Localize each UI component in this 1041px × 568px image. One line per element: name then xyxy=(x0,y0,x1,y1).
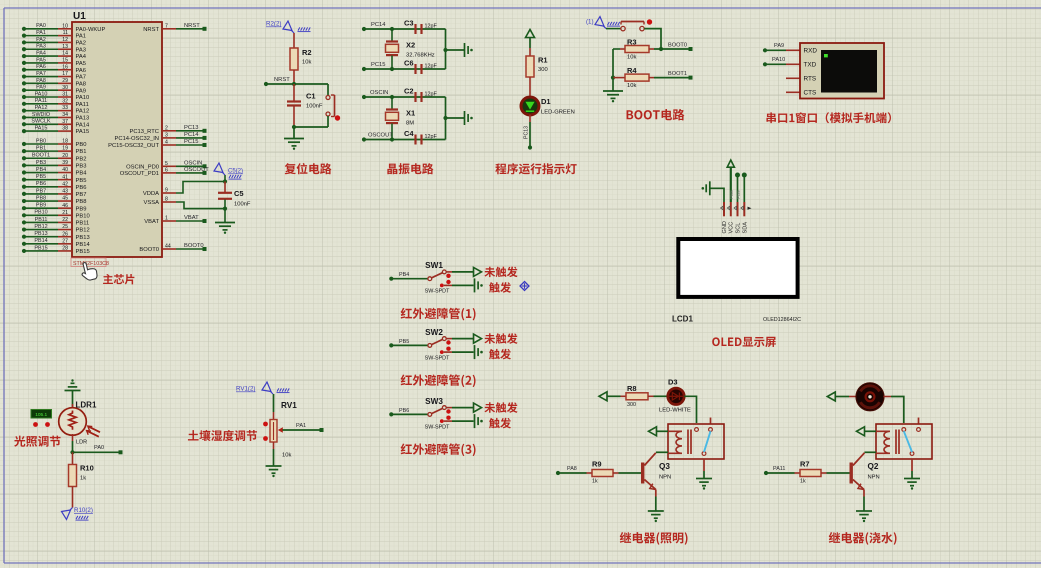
ground SW3 NC xyxy=(474,414,476,428)
svg-text:PA4: PA4 xyxy=(36,50,46,56)
svg-text:10k: 10k xyxy=(282,453,291,459)
svg-text:PA0: PA0 xyxy=(94,445,104,451)
switch SW1 SW-SPDT wire PB4 xyxy=(389,261,473,295)
svg-text:VSSA: VSSA xyxy=(144,200,160,206)
svg-text:39: 39 xyxy=(62,160,68,166)
svg-text:PB4: PB4 xyxy=(399,272,409,278)
svg-text:10: 10 xyxy=(62,23,68,29)
relay RL2 throw stub xyxy=(918,418,920,424)
svg-text:PA12: PA12 xyxy=(35,105,48,111)
svg-text:OSCOUT: OSCOUT xyxy=(184,167,209,173)
svg-text:RXD: RXD xyxy=(804,48,818,55)
svg-text:15: 15 xyxy=(62,58,68,64)
svg-text:7: 7 xyxy=(165,23,168,29)
svg-text:PB9: PB9 xyxy=(736,190,741,199)
svg-text:LCD1: LCD1 xyxy=(672,315,693,324)
svg-text:PA1: PA1 xyxy=(296,423,306,429)
svg-text:SCL: SCL xyxy=(736,223,742,234)
svg-text:18: 18 xyxy=(62,139,68,145)
svg-text:PB15: PB15 xyxy=(76,249,90,255)
svg-text:PB3: PB3 xyxy=(36,160,46,166)
svg-text:1k: 1k xyxy=(80,476,86,482)
pin PC14-OSC32_IN (3) net PC14 xyxy=(115,132,207,142)
svg-text:41: 41 xyxy=(62,174,68,180)
svg-text:SW1: SW1 xyxy=(425,261,443,270)
svg-text:25: 25 xyxy=(62,224,68,230)
svg-text:PA10: PA10 xyxy=(772,57,785,63)
svg-text:PA10: PA10 xyxy=(76,95,90,101)
svg-text:45: 45 xyxy=(62,196,68,202)
svg-text:PB0: PB0 xyxy=(36,138,46,144)
label 串口1窗口（模拟手机端） xyxy=(766,112,891,123)
svg-text:44: 44 xyxy=(165,244,171,250)
svg-text:PA7: PA7 xyxy=(36,71,46,77)
wire BOOT0 net xyxy=(654,43,693,52)
svg-text:PB4: PB4 xyxy=(36,167,46,173)
ground reset xyxy=(284,127,304,150)
svg-text:105.1: 105.1 xyxy=(35,412,47,418)
ldr LDR1 xyxy=(59,401,100,446)
svg-text:C2: C2 xyxy=(404,87,414,96)
svg-text:30: 30 xyxy=(62,85,68,91)
svg-text:PA6: PA6 xyxy=(36,64,46,70)
svg-text:D3: D3 xyxy=(668,378,678,387)
power arrow SW1 NO xyxy=(474,267,482,276)
oled pin marks xyxy=(721,206,752,210)
virtual terminal screen xyxy=(821,50,877,93)
ground SW2 NC xyxy=(474,345,476,359)
svg-text:8: 8 xyxy=(165,197,168,203)
ground Q2 emitter xyxy=(856,510,872,512)
ground RL1 xyxy=(696,478,712,480)
svg-text:PA3: PA3 xyxy=(76,47,87,53)
switch SW3 SW-SPDT wire PB6 xyxy=(389,397,473,431)
svg-text:BOOT1: BOOT1 xyxy=(32,153,50,159)
svg-text:LDR: LDR xyxy=(76,440,87,446)
transistor Q2 NPN xyxy=(850,453,880,511)
svg-text:NPN: NPN xyxy=(659,475,671,481)
pin PA0-WKUP (10) wire PA0 xyxy=(22,23,106,33)
pin PA1 (11) wire PA1 xyxy=(22,30,86,40)
svg-text:PA3: PA3 xyxy=(36,44,46,50)
resistor R10 1k xyxy=(69,452,94,507)
svg-text:PB6: PB6 xyxy=(76,185,87,191)
svg-text:6: 6 xyxy=(165,168,168,174)
pin PA6 (16) wire PA6 xyxy=(22,64,86,74)
power arrow motor xyxy=(827,392,856,401)
pin PA12 (33) wire PA12 xyxy=(22,105,89,115)
svg-text:PA8: PA8 xyxy=(36,78,46,84)
svg-text:R2: R2 xyxy=(302,48,312,57)
svg-text:27: 27 xyxy=(62,238,68,244)
switch SW2 SW-SPDT wire PB5 xyxy=(389,328,473,362)
pin PB11 (22) wire PB11 xyxy=(22,217,89,227)
svg-text:PC14: PC14 xyxy=(184,132,199,138)
wire coil to Q3 collector xyxy=(656,451,668,453)
node VSSA/C5 junction xyxy=(223,207,227,211)
pin PB7 (43) wire PB7 xyxy=(22,188,87,198)
label 未触发 1 xyxy=(484,267,517,278)
pin PB6 (42) wire PB6 xyxy=(22,181,87,191)
terminal pin labels xyxy=(804,48,818,97)
label 土壤湿度调节 xyxy=(188,430,257,441)
pin PB2 (20) wire BOOT1 xyxy=(22,153,87,163)
ground LDR top xyxy=(65,390,81,392)
label 未触发 3 xyxy=(484,402,517,413)
svg-text:PB4: PB4 xyxy=(76,171,88,177)
mcu part number STM32F103C8 xyxy=(71,258,109,267)
svg-text:PA0-WKUP: PA0-WKUP xyxy=(76,27,106,33)
power terminal D1 xyxy=(526,30,535,49)
motor xyxy=(856,383,884,411)
svg-text:1k: 1k xyxy=(592,479,598,485)
svg-text:R8: R8 xyxy=(627,384,637,393)
svg-text:PA4: PA4 xyxy=(76,54,87,60)
origin marker xyxy=(520,282,529,291)
svg-text:PB13: PB13 xyxy=(34,231,47,237)
wire PC14 xyxy=(362,22,446,31)
svg-text:NRST: NRST xyxy=(143,27,159,33)
svg-text:33: 33 xyxy=(62,105,68,111)
label 红外避障管(1) xyxy=(401,308,476,321)
ground SW1 NC xyxy=(474,278,476,292)
pin OSCIN_PD0 (5) net OSCIN xyxy=(126,161,206,171)
pin PB5 (41) wire PB5 xyxy=(22,174,87,184)
svg-text:PB1: PB1 xyxy=(36,146,46,152)
svg-text:PB7: PB7 xyxy=(76,192,87,198)
pot RV1 10k xyxy=(263,394,297,466)
svg-text:PA11: PA11 xyxy=(35,98,47,104)
svg-text:PB6: PB6 xyxy=(399,408,409,414)
svg-text:OSCOUT_PD1: OSCOUT_PD1 xyxy=(120,171,159,177)
svg-text:VBAT: VBAT xyxy=(184,215,199,221)
svg-text:TXD: TXD xyxy=(804,62,817,69)
svg-text:PA14: PA14 xyxy=(76,122,91,128)
label BOOT电路 xyxy=(627,109,685,120)
svg-text:11: 11 xyxy=(63,30,68,36)
svg-text:RV1: RV1 xyxy=(281,401,297,410)
virtual terminal body xyxy=(800,43,884,99)
terminal R2(2) xyxy=(266,21,311,34)
svg-text:NRST: NRST xyxy=(184,23,200,29)
svg-text:32: 32 xyxy=(62,98,68,104)
svg-text:PB10: PB10 xyxy=(34,210,47,216)
svg-text:PB8: PB8 xyxy=(36,195,46,201)
svg-text:PC14-OSC32_IN: PC14-OSC32_IN xyxy=(115,136,159,142)
resistor R7 1k xyxy=(795,460,850,485)
svg-text:PB14: PB14 xyxy=(34,238,47,244)
svg-text:43: 43 xyxy=(62,189,68,195)
pin PA4 (14) wire PA4 xyxy=(22,50,87,60)
svg-text:PA2: PA2 xyxy=(76,41,87,47)
pin PB4 (40) wire PB4 xyxy=(22,167,87,177)
svg-text:PA10: PA10 xyxy=(35,91,48,97)
svg-text:4: 4 xyxy=(165,140,168,146)
svg-text:PB5: PB5 xyxy=(36,174,46,180)
pin PA3 (13) wire PA3 xyxy=(22,44,86,54)
resistor R2 10k xyxy=(290,33,312,84)
label 程序运行指示灯 xyxy=(495,163,576,174)
pin PA9 (30) wire PA9 xyxy=(22,85,86,95)
svg-text:5: 5 xyxy=(165,161,168,167)
relay RL1 coil+switch xyxy=(668,424,724,459)
svg-text:NPN: NPN xyxy=(868,475,880,481)
svg-text:PB13: PB13 xyxy=(76,235,90,241)
pin PB3 (39) wire PB3 xyxy=(22,160,87,170)
push button BOOT xyxy=(606,19,652,31)
svg-text:10k: 10k xyxy=(302,60,311,66)
svg-text:STM32F103C8: STM32F103C8 xyxy=(73,261,109,267)
svg-text:GND: GND xyxy=(722,221,728,233)
capacitor C1 100nF xyxy=(287,84,323,127)
wire NRST rail xyxy=(264,77,328,86)
svg-text:10k: 10k xyxy=(627,55,636,61)
led D3 LED-WHITE xyxy=(654,378,692,414)
svg-text:R10: R10 xyxy=(80,464,94,473)
svg-text:34: 34 xyxy=(62,112,68,118)
ground BOOT xyxy=(603,78,623,103)
wire OSCOUT xyxy=(362,133,446,142)
svg-text:PB7: PB7 xyxy=(36,188,46,194)
wire BOOT1 net xyxy=(654,71,693,80)
svg-text:X2: X2 xyxy=(406,40,415,49)
wire PA11 xyxy=(764,466,795,475)
svg-text:26: 26 xyxy=(62,231,68,237)
svg-text:PA9: PA9 xyxy=(76,88,87,94)
svg-text:PA15: PA15 xyxy=(76,129,90,135)
svg-text:300: 300 xyxy=(538,67,548,73)
wire PA9 xyxy=(763,43,800,52)
relay RL2 coil+switch xyxy=(876,424,932,459)
resistor R9 1k xyxy=(587,460,642,485)
wire PA1 xyxy=(283,423,324,432)
transistor Q3 NPN xyxy=(641,453,671,511)
ground OLED xyxy=(709,181,711,195)
svg-text:22: 22 xyxy=(62,217,68,223)
svg-text:9: 9 xyxy=(165,188,168,194)
oled rotated net labels xyxy=(729,190,741,199)
ground RV1 xyxy=(266,465,282,467)
svg-text:1k: 1k xyxy=(800,479,806,485)
svg-text:R4: R4 xyxy=(627,66,637,75)
svg-text:PA9: PA9 xyxy=(36,85,46,91)
ground RL2 xyxy=(904,478,920,480)
svg-text:PA6: PA6 xyxy=(76,68,87,74)
terminal cursor xyxy=(824,54,828,57)
svg-text:SW3: SW3 xyxy=(425,397,443,406)
svg-text:CTS: CTS xyxy=(804,90,817,97)
pin PA11 (32) wire PA11 xyxy=(22,98,89,108)
svg-text:PC13: PC13 xyxy=(524,126,530,139)
wire OSCIN xyxy=(362,90,446,99)
svg-text:12pF: 12pF xyxy=(425,134,438,140)
pin PB15 (28) wire PB15 xyxy=(22,245,90,255)
pin CTS stub xyxy=(786,91,800,93)
svg-text:R7: R7 xyxy=(800,460,810,469)
svg-text:LED-GREEN: LED-GREEN xyxy=(541,110,575,116)
svg-text:PA11: PA11 xyxy=(773,466,785,472)
svg-text:40: 40 xyxy=(62,167,68,173)
svg-text:14: 14 xyxy=(62,51,68,57)
pin PC13_RTC (2) net PC13 xyxy=(129,125,206,135)
svg-text:LED-WHITE: LED-WHITE xyxy=(659,408,691,414)
wire PA0 xyxy=(73,445,123,454)
svg-text:R10(2): R10(2) xyxy=(74,507,93,514)
svg-text:PC15: PC15 xyxy=(371,62,386,68)
node VDDA/C5 junction xyxy=(223,179,227,183)
svg-text:PA2: PA2 xyxy=(36,37,46,43)
crystal X1 8M xyxy=(386,97,416,140)
svg-text:37: 37 xyxy=(62,119,68,125)
pin PA5 (15) wire PA5 xyxy=(22,57,86,67)
svg-text:PB9: PB9 xyxy=(76,206,87,212)
ldr value display xyxy=(31,410,52,419)
wire R3-R4 left rail xyxy=(611,49,615,80)
wire crystal1 right rail xyxy=(443,97,464,140)
oled SDA wire xyxy=(742,173,747,203)
oled pins xyxy=(724,202,744,216)
svg-text:NRST: NRST xyxy=(274,77,290,83)
capacitor C5 100nF xyxy=(218,182,251,223)
svg-text:PB15: PB15 xyxy=(34,245,47,251)
ground Q3 emitter xyxy=(648,510,664,512)
push button reset xyxy=(326,95,340,121)
svg-text:PB1: PB1 xyxy=(76,149,87,155)
svg-text:PA13: PA13 xyxy=(76,116,90,122)
mcu U1 body xyxy=(72,11,162,257)
pin PA10 (31) wire PA10 xyxy=(22,91,89,101)
svg-text:PA9: PA9 xyxy=(774,43,784,49)
svg-text:C5(2): C5(2) xyxy=(228,169,243,175)
svg-text:PA15: PA15 xyxy=(35,126,48,132)
svg-text:OSCOUT: OSCOUT xyxy=(368,133,393,139)
svg-text:46: 46 xyxy=(62,203,68,209)
label 触发 1 xyxy=(489,282,511,293)
svg-text:R2(2): R2(2) xyxy=(266,21,281,28)
svg-text:R9: R9 xyxy=(592,460,602,469)
svg-text:13: 13 xyxy=(62,44,68,50)
wire LDR top xyxy=(72,391,74,408)
label 主芯片 xyxy=(103,274,134,284)
svg-text:BOOT0: BOOT0 xyxy=(668,43,687,49)
svg-text:PB5: PB5 xyxy=(76,178,87,184)
svg-text:20: 20 xyxy=(62,153,68,159)
svg-text:12pF: 12pF xyxy=(425,24,438,30)
svg-text:PC13: PC13 xyxy=(184,125,199,131)
svg-text:3: 3 xyxy=(165,133,168,139)
label 触发 2 xyxy=(489,349,511,360)
oled display LCD1 xyxy=(678,239,797,297)
svg-text:SDA: SDA xyxy=(742,222,748,234)
terminal (1) xyxy=(586,17,620,29)
svg-text:PB14: PB14 xyxy=(76,242,91,248)
wire PA10 xyxy=(763,57,800,66)
pin PB10 (21) wire PB10 xyxy=(22,210,90,220)
svg-text:8M: 8M xyxy=(406,120,414,126)
svg-text:OLED12864I2C: OLED12864I2C xyxy=(763,317,801,323)
pin PB0 (18) wire PB0 xyxy=(22,138,87,148)
svg-text:PB9: PB9 xyxy=(36,203,46,209)
svg-text:16: 16 xyxy=(62,64,68,70)
label 继电器(浇水) xyxy=(829,532,897,545)
resistor R8 300 xyxy=(607,384,654,408)
label 继电器(照明) xyxy=(620,532,688,545)
svg-text:OSCIN: OSCIN xyxy=(370,90,388,96)
svg-text:SWDIO: SWDIO xyxy=(32,112,50,118)
pin PA14 (37) wire SWCLK xyxy=(22,119,90,129)
pin PA7 (17) wire PA7 xyxy=(22,71,86,81)
resistor R4 10k xyxy=(613,66,654,89)
terminal R10(2) xyxy=(62,507,93,520)
capacitor C2 12pF xyxy=(404,87,437,103)
label 未触发 2 xyxy=(484,333,517,344)
svg-text:BOOT1: BOOT1 xyxy=(668,71,687,77)
pin BOOT0 (44) net BOOT0 xyxy=(139,243,206,253)
svg-text:17: 17 xyxy=(62,71,68,77)
wire bottom rail xyxy=(292,116,328,129)
pin VDDA (9) xyxy=(143,182,225,198)
svg-text:(1): (1) xyxy=(586,19,594,26)
pin RTS stub xyxy=(786,77,800,79)
svg-text:Q2: Q2 xyxy=(868,462,879,471)
wire PC15 xyxy=(362,62,446,71)
wire RL2 to ground xyxy=(911,459,913,478)
label 光照调节 xyxy=(14,436,60,447)
svg-text:38: 38 xyxy=(62,126,68,132)
relay RL1 throw stub xyxy=(710,418,712,424)
svg-text:28: 28 xyxy=(62,246,68,252)
svg-text:VCC: VCC xyxy=(729,222,735,234)
svg-text:SW-SPDT: SW-SPDT xyxy=(425,424,450,430)
svg-text:32.768KHz: 32.768KHz xyxy=(406,52,435,58)
oled power terminal VCC xyxy=(727,160,734,202)
capacitor C4 12pF xyxy=(404,129,437,145)
wire crystal2 right rail xyxy=(443,29,464,69)
svg-text:PC15-OSC32_OUT: PC15-OSC32_OUT xyxy=(108,143,159,149)
resistor R3 10k xyxy=(613,38,654,61)
svg-text:Q3: Q3 xyxy=(659,462,670,471)
svg-text:C5: C5 xyxy=(234,189,244,198)
svg-text:C1: C1 xyxy=(306,92,316,101)
ldr adjust buttons xyxy=(33,422,38,427)
terminal C5(2) xyxy=(214,163,243,182)
pin PA13 (34) wire SWDIO xyxy=(22,112,89,122)
svg-text:X1: X1 xyxy=(406,108,415,117)
wire PA8 xyxy=(556,466,587,475)
oled gnd wire xyxy=(710,188,725,202)
svg-text:SW2: SW2 xyxy=(425,328,443,337)
svg-text:PA5: PA5 xyxy=(76,61,87,67)
label 红外避障管(2) xyxy=(401,374,476,387)
svg-text:SW-SPDT: SW-SPDT xyxy=(425,289,450,295)
svg-text:PC13_RTC: PC13_RTC xyxy=(129,129,159,135)
svg-text:100nF: 100nF xyxy=(234,202,251,208)
wire coil to Q2 collector xyxy=(865,451,877,453)
svg-text:10k: 10k xyxy=(627,83,636,89)
svg-text:PB8: PB8 xyxy=(729,190,734,199)
svg-text:BOOT0: BOOT0 xyxy=(139,247,159,253)
capacitor C3 12pF xyxy=(404,19,437,35)
pin PB1 (19) wire PB1 xyxy=(22,146,87,156)
svg-text:PB8: PB8 xyxy=(76,199,87,205)
svg-text:OSCIN: OSCIN xyxy=(184,161,202,167)
svg-text:C4: C4 xyxy=(404,129,414,138)
svg-text:PB2: PB2 xyxy=(76,156,87,162)
wire RL1 to ground xyxy=(703,459,705,478)
svg-text:OSCIN_PD0: OSCIN_PD0 xyxy=(126,164,159,170)
svg-text:PB11: PB11 xyxy=(76,221,90,227)
pin PB13 (26) wire PB13 xyxy=(22,231,90,241)
